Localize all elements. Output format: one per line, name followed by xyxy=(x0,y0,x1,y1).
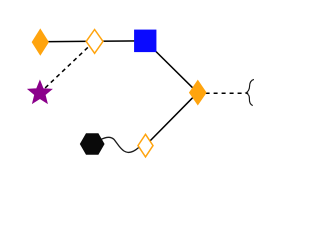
black hexagon (bottom-left) xyxy=(80,134,104,154)
wire: link blue square to right diamond xyxy=(145,41,197,93)
white diamond B (orange outline, top middle) xyxy=(86,30,103,54)
wire: wavy link hexagon to bottom diamond xyxy=(97,137,146,152)
wire: link diamond A to diamond B xyxy=(40,40,95,43)
wire: link right diamond to bottom diamond xyxy=(146,93,198,146)
orange filled diamond A (top-left) xyxy=(33,30,48,54)
orange filled diamond (right, middle row) xyxy=(190,81,206,104)
white diamond (orange outline, bottom) xyxy=(138,134,153,157)
opening brace / squiggle terminator at right xyxy=(246,79,254,105)
purple star xyxy=(28,81,51,103)
wire: dashed link right diamond to brace xyxy=(198,92,249,94)
blue filled square (GlcNAc-style) xyxy=(134,30,156,52)
wire: link diamond B to blue square xyxy=(94,40,145,42)
wire: dashed link diamond B to star xyxy=(40,41,94,93)
